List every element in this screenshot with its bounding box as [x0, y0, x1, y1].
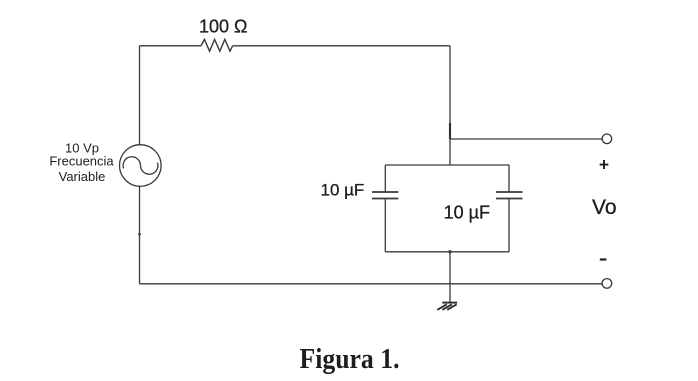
- wire center drop to ground: [449, 252, 451, 303]
- wire bottom-left vertical: [139, 186, 141, 283]
- wire output top branch: [450, 138, 602, 140]
- wire bottom horizontal: [140, 283, 603, 285]
- wire top horizontal right of resistor: [233, 45, 450, 47]
- node junction at box bottom: [448, 250, 451, 253]
- svg-text:+: +: [599, 155, 609, 175]
- node smudge on left wire: [138, 233, 141, 236]
- svg-text:Frecuencia: Frecuencia: [49, 153, 114, 168]
- wire box bottom edge: [385, 251, 509, 253]
- svg-text:100 Ω: 100 Ω: [199, 17, 248, 37]
- resistor R1: [201, 39, 233, 51]
- wire box top edge: [385, 164, 509, 166]
- capacitor C1 plates: [372, 191, 398, 193]
- wire top-left vertical: [139, 46, 141, 145]
- capacitor C2 plates: [496, 191, 523, 193]
- node output + terminal: [602, 134, 612, 144]
- wire box left upper: [384, 165, 386, 192]
- svg-text:10 µF: 10 µF: [444, 202, 490, 222]
- junction darker segment: [449, 123, 451, 139]
- ground: [437, 303, 457, 310]
- svg-text:Figura 1.: Figura 1.: [300, 343, 400, 375]
- svg-text:Vo: Vo: [592, 196, 617, 219]
- source V1 (AC): [120, 145, 162, 187]
- node output - terminal: [602, 279, 612, 289]
- wire top horizontal left of resistor: [140, 45, 202, 47]
- wire right vertical from resistor to box: [449, 46, 451, 165]
- label minus: [600, 258, 607, 260]
- svg-text:10 µF: 10 µF: [321, 181, 365, 200]
- wire box left lower: [384, 199, 386, 252]
- wire box right upper: [508, 165, 510, 192]
- svg-text:Variable: Variable: [59, 169, 106, 184]
- wire box right lower: [508, 199, 510, 252]
